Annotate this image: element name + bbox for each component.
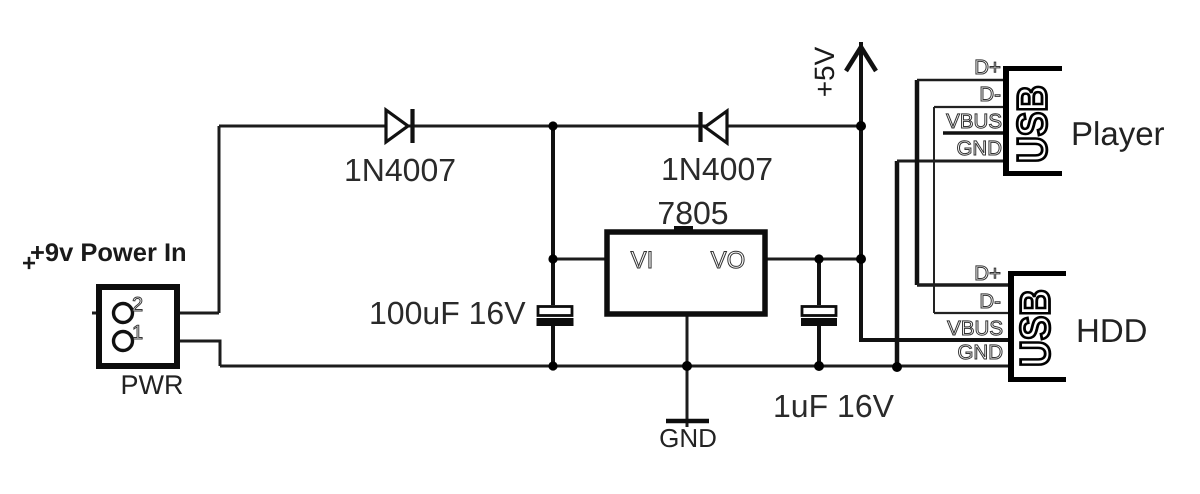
svg-text:7805: 7805 [657,195,728,231]
svg-text:1N4007: 1N4007 [344,152,456,188]
svg-text:D-: D- [979,83,1001,106]
svg-text:1: 1 [132,322,143,344]
svg-text:D-: D- [979,290,1001,313]
svg-text:GND: GND [957,341,1003,364]
svg-text:+: + [22,250,36,277]
svg-text:VBUS: VBUS [947,317,1003,340]
svg-text:1uF 16V: 1uF 16V [773,388,895,424]
svg-text:GND: GND [659,423,717,453]
svg-text:VI: VI [631,247,654,274]
svg-text:PWR: PWR [121,370,184,400]
svg-text:VBUS: VBUS [946,110,1002,133]
svg-text:D+: D+ [974,56,1001,79]
svg-text:VO: VO [711,247,746,274]
svg-text:USB: USB [1010,85,1056,163]
svg-text:USB: USB [1013,289,1059,367]
svg-text:D+: D+ [974,262,1001,285]
svg-text:GND: GND [956,137,1002,160]
svg-text:Player: Player [1071,115,1165,152]
svg-text:100uF 16V: 100uF 16V [369,295,526,331]
svg-text:HDD: HDD [1076,312,1148,349]
svg-text:1N4007: 1N4007 [661,151,773,187]
svg-text:+9v Power In: +9v Power In [30,239,187,267]
svg-text:+5V: +5V [809,46,840,97]
svg-text:2: 2 [132,294,143,316]
